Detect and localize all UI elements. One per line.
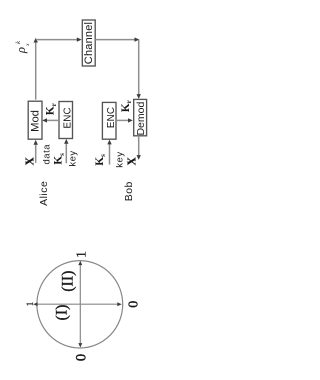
svg-text:ENC: ENC xyxy=(106,107,117,128)
wire key into ENC Bob xyxy=(109,144,111,165)
svg-text:key: key xyxy=(67,150,78,166)
arrowhead into Demod left xyxy=(128,118,133,122)
arrowhead vertical axis bottom xyxy=(78,343,82,347)
box Mod xyxy=(28,101,42,139)
arrowhead horizontal axis left xyxy=(33,302,37,306)
arrowhead into Channel xyxy=(77,37,82,41)
circle phase diagram xyxy=(37,261,123,348)
svg-text:Bob: Bob xyxy=(123,181,135,201)
arrowhead into Mod bottom xyxy=(34,140,38,145)
svg-text:Mod: Mod xyxy=(30,110,42,132)
box Demod xyxy=(134,99,147,135)
svg-text:Alice: Alice xyxy=(38,181,50,206)
svg-text:x: x xyxy=(19,156,38,165)
arrowhead into Demod top xyxy=(137,94,141,99)
wire ENC Bob to Demod xyxy=(116,119,129,121)
channel box xyxy=(82,20,95,66)
arrowhead horizontal axis right xyxy=(117,302,121,306)
box ENC Alice xyxy=(59,102,74,139)
svg-text:ENC: ENC xyxy=(63,107,74,128)
box ENC Bob xyxy=(102,102,116,139)
arrowhead vertical axis top xyxy=(78,261,82,265)
wire Mod output up xyxy=(35,40,37,100)
arrowhead up at corner xyxy=(34,38,38,43)
wire L2 from Channel xyxy=(95,39,139,41)
node rho state label xyxy=(14,41,31,54)
svg-text:data: data xyxy=(41,144,52,165)
horizontal axis line xyxy=(36,303,119,305)
arrowhead into ENC Bob bottom xyxy=(107,140,111,145)
arrowhead into Mod right xyxy=(42,118,47,122)
svg-text:(II): (II) xyxy=(59,270,76,291)
wire Demod output down xyxy=(138,136,140,156)
svg-text:Channel: Channel xyxy=(83,22,95,64)
svg-text:0: 0 xyxy=(127,301,142,308)
vertical axis line xyxy=(79,264,81,346)
svg-text:0: 0 xyxy=(74,354,90,361)
wire down to Demod xyxy=(138,40,140,96)
arrowhead output x Bob xyxy=(137,155,141,160)
wire key into ENC Alice xyxy=(65,143,67,164)
arrowhead right at corner xyxy=(135,37,140,41)
svg-text:1: 1 xyxy=(25,302,35,307)
svg-text:1: 1 xyxy=(74,251,89,258)
svg-text:(I): (I) xyxy=(53,305,70,321)
wire ENC Alice to Mod xyxy=(46,119,59,121)
wire x into Mod bottom xyxy=(35,144,37,163)
arrowhead into ENC Alice bottom xyxy=(64,139,68,144)
svg-text:x: x xyxy=(120,156,139,165)
svg-text:Demod: Demod xyxy=(135,102,147,136)
wire L1 to Channel xyxy=(36,39,78,41)
